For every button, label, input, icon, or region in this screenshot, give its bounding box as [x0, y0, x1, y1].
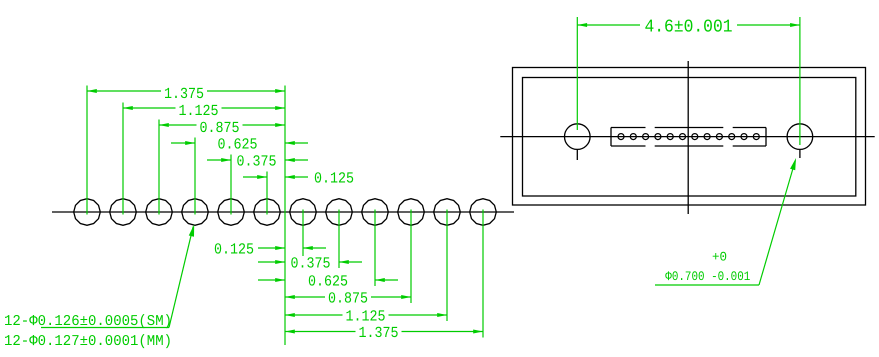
dimension 0.125 bottom	[258, 247, 285, 249]
dimension 1.375 top	[87, 90, 161, 92]
svg-text:Φ0.700 -0.001: Φ0.700 -0.001	[665, 269, 750, 284]
extension line mounting hole left	[576, 17, 578, 130]
svg-text:0.625: 0.625	[308, 273, 348, 291]
svg-text:0.125: 0.125	[314, 170, 354, 188]
hole H3	[146, 199, 173, 226]
mounting hole left	[565, 124, 591, 150]
pin hole P9	[716, 134, 722, 140]
svg-text:12-Φ0.126±0.0005(SM): 12-Φ0.126±0.0005(SM)	[4, 313, 172, 330]
extension line hole H9 bottom	[374, 210, 376, 287]
extension line hole H11 bottom	[446, 210, 448, 322]
insulator strip outline	[610, 128, 612, 147]
hole H9	[362, 199, 389, 226]
connector inner body rectangle	[523, 78, 856, 197]
pin hole P2	[630, 134, 636, 140]
reference extension line (datum)	[284, 86, 286, 346]
svg-text:1.125: 1.125	[179, 102, 219, 120]
extension line hole H12 bottom	[482, 210, 484, 338]
pin hole P5	[667, 134, 673, 140]
svg-text:1.375: 1.375	[359, 324, 399, 342]
pin hole P6	[680, 134, 686, 140]
pin hole P4	[655, 134, 661, 140]
extension line hole H4 top	[194, 138, 196, 215]
extension line hole H6 top	[266, 172, 268, 215]
dimension 0.125 top	[243, 176, 267, 178]
pin hole P10	[729, 134, 735, 140]
svg-text:12-Φ0.127±0.0001(MM): 12-Φ0.127±0.0001(MM)	[4, 333, 172, 350]
dimension 4.6±0.001	[577, 24, 640, 26]
svg-text:4.6±0.001: 4.6±0.001	[645, 18, 733, 38]
pin hole P7	[692, 134, 698, 140]
svg-text:1.125: 1.125	[346, 308, 386, 326]
extension line hole H7 bottom	[302, 210, 304, 257]
svg-text:0.875: 0.875	[328, 290, 368, 308]
svg-text:0.125: 0.125	[214, 241, 254, 259]
leader line mounting hole note	[655, 284, 759, 286]
pin hole P11	[741, 134, 747, 140]
dimension 1.125 top	[123, 107, 176, 109]
hole H12	[470, 199, 497, 226]
extension line hole H2 top	[122, 103, 124, 215]
hole H11	[434, 199, 461, 226]
extension line mounting hole right	[799, 17, 801, 145]
svg-text:1.375: 1.375	[164, 85, 204, 103]
extension line hole H5 top	[230, 155, 232, 215]
extension line hole H3 top	[158, 120, 160, 215]
connector horizontal centerline	[500, 136, 874, 138]
hole H10	[398, 199, 425, 226]
mounting hole right	[787, 124, 813, 150]
svg-text:+0: +0	[712, 250, 727, 265]
svg-text:0.875: 0.875	[200, 119, 240, 137]
dimension 0.625 top	[171, 142, 195, 144]
pin hole P1	[618, 134, 624, 140]
dimension 0.375 top	[207, 159, 231, 161]
dimension 0.625 bottom	[258, 279, 285, 281]
connector vertical centerline	[687, 61, 689, 214]
hole H6	[254, 199, 281, 226]
extension line hole H8 bottom	[338, 210, 340, 269]
hole H1	[74, 199, 101, 226]
svg-text:0.375: 0.375	[237, 153, 277, 171]
centerline left view	[52, 211, 514, 213]
extension line hole H10 bottom	[410, 210, 412, 304]
pin hole P3	[643, 134, 649, 140]
svg-text:0.625: 0.625	[218, 136, 258, 154]
pin hole P8	[704, 134, 710, 140]
svg-text:0.375: 0.375	[291, 255, 331, 273]
hole H2	[110, 199, 137, 226]
leader line hole size note	[41, 327, 169, 329]
hole H7	[290, 199, 317, 226]
dimension 0.875 bottom	[285, 296, 325, 298]
pin hole P12	[753, 134, 759, 140]
dimension 0.875 top	[159, 124, 197, 126]
hole H8	[326, 199, 353, 226]
dimension 1.125 bottom	[285, 314, 343, 316]
connector outer body rectangle	[513, 68, 866, 206]
extension line hole H1 top	[86, 86, 88, 215]
dimension 1.375 bottom	[285, 331, 356, 333]
dimension 0.375 bottom	[258, 261, 285, 263]
hole H4	[182, 199, 209, 226]
hole H5	[218, 199, 245, 226]
